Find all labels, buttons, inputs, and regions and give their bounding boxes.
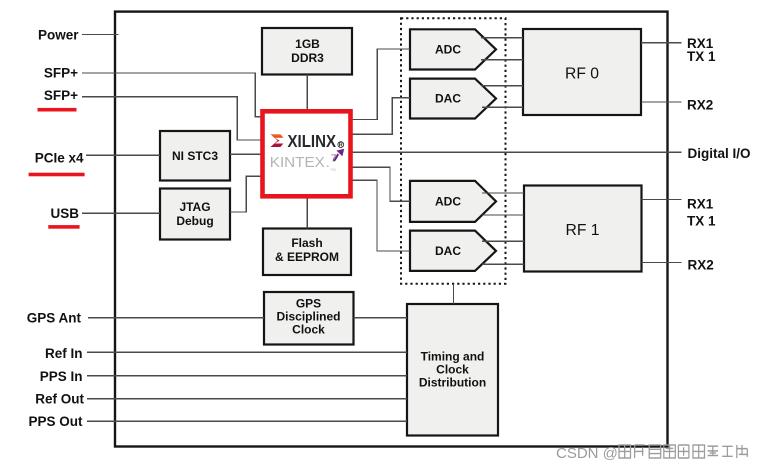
wire RF1 RX2	[642, 262, 682, 264]
wire PCIe x4 to NI STC3	[86, 154, 160, 156]
svg-text:ADC: ADC	[435, 195, 461, 209]
wire PPS In	[87, 375, 407, 377]
wire DAC1 to RF1 upper	[482, 240, 524, 242]
wire Ref In	[87, 351, 407, 353]
block RF 0	[523, 29, 641, 115]
wire SFP+ 1 to FPGA	[82, 73, 263, 117]
wire ADC0 to RF0 lower	[481, 59, 523, 61]
svg-text:RF 0: RF 0	[565, 66, 599, 83]
wire GPS to Timing	[354, 317, 408, 319]
wire Power	[82, 34, 119, 36]
wire DDR3 to FPGA	[306, 75, 308, 112]
svg-text:PCIe x4: PCIe x4	[35, 151, 84, 166]
wire RF0 RX1	[641, 42, 682, 44]
svg-text:TM: TM	[330, 167, 336, 172]
wire ADC1 to RF1 lower	[482, 214, 524, 216]
svg-text:Debug: Debug	[176, 214, 213, 228]
wire PPS Out	[87, 420, 407, 422]
svg-text:PPS In: PPS In	[40, 369, 83, 384]
svg-text:TX 1: TX 1	[687, 214, 716, 229]
svg-text:NI STC3: NI STC3	[172, 149, 218, 163]
wire RF1 RX1	[642, 199, 682, 201]
svg-text:RX2: RX2	[688, 258, 714, 273]
red underline SFP+	[38, 108, 77, 112]
block JTAG Debug	[160, 189, 230, 240]
registered mark	[338, 142, 344, 148]
svg-text:Digital I/O: Digital I/O	[688, 146, 751, 161]
svg-text:USB: USB	[50, 206, 79, 221]
outer border	[115, 12, 668, 447]
svg-text:Disciplined: Disciplined	[276, 310, 340, 324]
wire dotted box to Timing	[453, 284, 455, 304]
svg-text:KINTEX: KINTEX	[270, 155, 325, 171]
svg-text:Clock: Clock	[292, 323, 325, 337]
wire FPGA to DAC0	[351, 98, 411, 134]
wire Digital I/O	[351, 151, 682, 153]
dotted converter boundary	[401, 18, 506, 283]
red underline USB	[48, 225, 79, 229]
svg-text:TX 1: TX 1	[687, 49, 716, 64]
wire ADC1 to RF1 upper	[482, 192, 524, 194]
svg-text:DAC: DAC	[435, 244, 461, 258]
svg-text:SFP+: SFP+	[44, 66, 78, 81]
wire FPGA to Flash	[306, 196, 308, 228]
wire Ref Out	[87, 398, 407, 400]
Xilinx X logo	[270, 134, 283, 147]
wire DAC0 to RF0 lower	[482, 106, 523, 108]
svg-text:Ref In: Ref In	[45, 346, 83, 361]
svg-text:RX1: RX1	[687, 196, 714, 211]
svg-text:JTAG: JTAG	[179, 200, 210, 214]
svg-text:SFP+: SFP+	[44, 88, 78, 103]
DAC 0	[410, 79, 496, 119]
svg-text:Ref Out: Ref Out	[35, 392, 84, 407]
purple swoosh arrow	[334, 154, 338, 161]
DAC 1	[410, 231, 496, 271]
svg-text:Distribution: Distribution	[419, 376, 486, 390]
wire USB to JTAG	[82, 212, 160, 214]
block Timing and Clock Distribution	[407, 304, 498, 436]
wire DAC0 to RF0 upper	[481, 85, 523, 87]
wire FPGA to DAC1	[351, 180, 411, 251]
svg-text:Timing and: Timing and	[421, 350, 485, 364]
svg-text:PPS Out: PPS Out	[28, 414, 83, 429]
svg-text:RF 1: RF 1	[566, 222, 600, 239]
svg-text:& EEPROM: & EEPROM	[275, 250, 339, 264]
svg-text:DAC: DAC	[435, 92, 461, 106]
FPGA U1 Xilinx Kintex-7 (red highlight box)	[263, 111, 351, 196]
svg-text:Flash: Flash	[291, 236, 322, 250]
svg-text:Power: Power	[38, 27, 79, 42]
svg-text:1GB: 1GB	[295, 37, 320, 51]
wire FPGA to ADC0	[351, 49, 411, 120]
wire JTAG to FPGA	[230, 176, 263, 212]
svg-text:ADC: ADC	[435, 43, 461, 57]
block Flash & EEPROM	[263, 229, 351, 276]
block NI STC3	[160, 131, 230, 181]
wire RF0 RX2	[641, 101, 682, 103]
svg-text:Clock: Clock	[436, 363, 469, 377]
wire NI STC3 to FPGA	[230, 153, 263, 155]
wire SFP+ 2 to FPGA	[82, 97, 263, 140]
svg-text:GPS Ant: GPS Ant	[27, 311, 82, 326]
svg-text:RX2: RX2	[687, 98, 713, 113]
ADC 1	[410, 181, 496, 222]
svg-text:R: R	[339, 143, 343, 149]
block GPS Disciplined Clock	[264, 292, 354, 345]
watermark background	[670, 444, 754, 463]
svg-text:GPS: GPS	[296, 297, 321, 311]
svg-text:DDR3: DDR3	[291, 51, 324, 65]
wire ADC0 to RF0 upper	[481, 37, 523, 39]
watermark CJK mock glyphs	[619, 445, 747, 458]
block 1GB DDR3	[262, 28, 352, 75]
svg-text:XILINX: XILINX	[288, 131, 337, 151]
red underline PCIe x4	[29, 173, 85, 177]
wire FPGA to ADC1	[351, 167, 411, 201]
block RF 1	[524, 186, 642, 272]
watermark CSDN	[556, 445, 618, 462]
wire DAC1 to RF1 lower	[482, 263, 524, 265]
ADC 0	[410, 29, 496, 69]
wire GPS Ant	[88, 317, 264, 319]
svg-text:CSDN @: CSDN @	[556, 445, 618, 462]
